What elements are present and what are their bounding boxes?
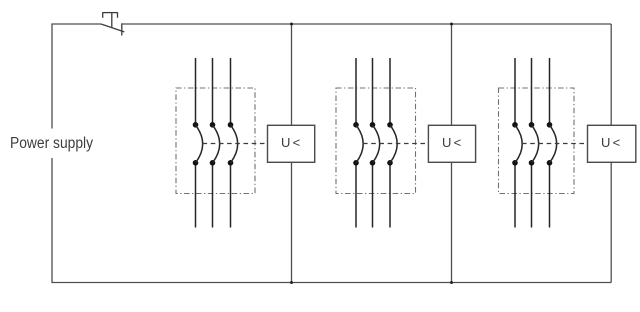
wire: top rail right segment xyxy=(122,23,611,25)
K2 mechanical link (dashed) to relay U2 xyxy=(363,143,428,145)
wire: bus 1 upper xyxy=(291,24,293,125)
K2 phase line 1 xyxy=(355,58,357,228)
junction: bus 1 / bottom rail xyxy=(290,281,293,284)
wire: left rail (power supply) xyxy=(51,24,53,283)
K3 phase line 1 xyxy=(514,58,516,228)
svg-text:U<: U< xyxy=(281,135,302,150)
pushbutton switch S1 xyxy=(101,12,124,35)
wire: bus 2 lower xyxy=(451,162,453,282)
K2 contact 1 (arc + junction dots) xyxy=(353,122,363,166)
K2 contact 3 (arc + junction dots) xyxy=(387,122,397,166)
K3 contact 3 (arc + junction dots) xyxy=(547,122,557,166)
K1 phase line 3 xyxy=(230,58,232,228)
K1 phase line 2 xyxy=(212,58,214,228)
K1 contact 3 (arc + junction dots) xyxy=(228,122,238,166)
K1 mechanical link (dashed) to relay U1 xyxy=(203,143,268,145)
undervoltage relay U3 box xyxy=(588,125,636,162)
K3 phase line 2 xyxy=(531,58,533,228)
wire: right rail lower xyxy=(610,162,612,282)
undervoltage relay U1 box xyxy=(268,125,315,162)
K1 phase line 1 xyxy=(195,58,197,228)
K3 phase line 3 xyxy=(549,58,551,228)
contactor group K2 boundary (dash-dot box) xyxy=(336,88,416,194)
K3 contact 2 (arc + junction dots) xyxy=(529,122,539,166)
K1 contact 2 (arc + junction dots) xyxy=(210,122,220,166)
wire: bus 2 upper xyxy=(451,24,453,125)
K2 phase line 3 xyxy=(389,58,391,228)
K2 phase line 2 xyxy=(372,58,374,228)
junction: bus 2 / bottom rail xyxy=(450,281,453,284)
K1 contact 1 (arc + junction dots) xyxy=(193,122,203,166)
wire: bottom rail xyxy=(51,282,611,284)
undervoltage relay U2 box xyxy=(428,125,475,162)
junction: bus 1 / top rail xyxy=(290,23,293,26)
wire: bus 1 lower xyxy=(291,162,293,282)
svg-text:U<: U< xyxy=(601,135,622,150)
K2 contact 2 (arc + junction dots) xyxy=(370,122,380,166)
wire: right rail upper xyxy=(610,24,612,125)
wire: top rail left segment xyxy=(51,23,101,25)
junction: bus 2 / top rail xyxy=(450,23,453,26)
contactor group K3 boundary (dash-dot box) xyxy=(499,88,575,194)
K3 mechanical link (dashed) to relay U3 xyxy=(522,143,588,145)
svg-text:U<: U< xyxy=(442,135,463,150)
svg-text:Power supply: Power supply xyxy=(10,135,93,152)
K3 contact 1 (arc + junction dots) xyxy=(512,122,522,166)
label: Power supply (white backing over left rail) xyxy=(4,129,96,159)
contactor group K1 boundary (dash-dot box) xyxy=(176,88,255,194)
